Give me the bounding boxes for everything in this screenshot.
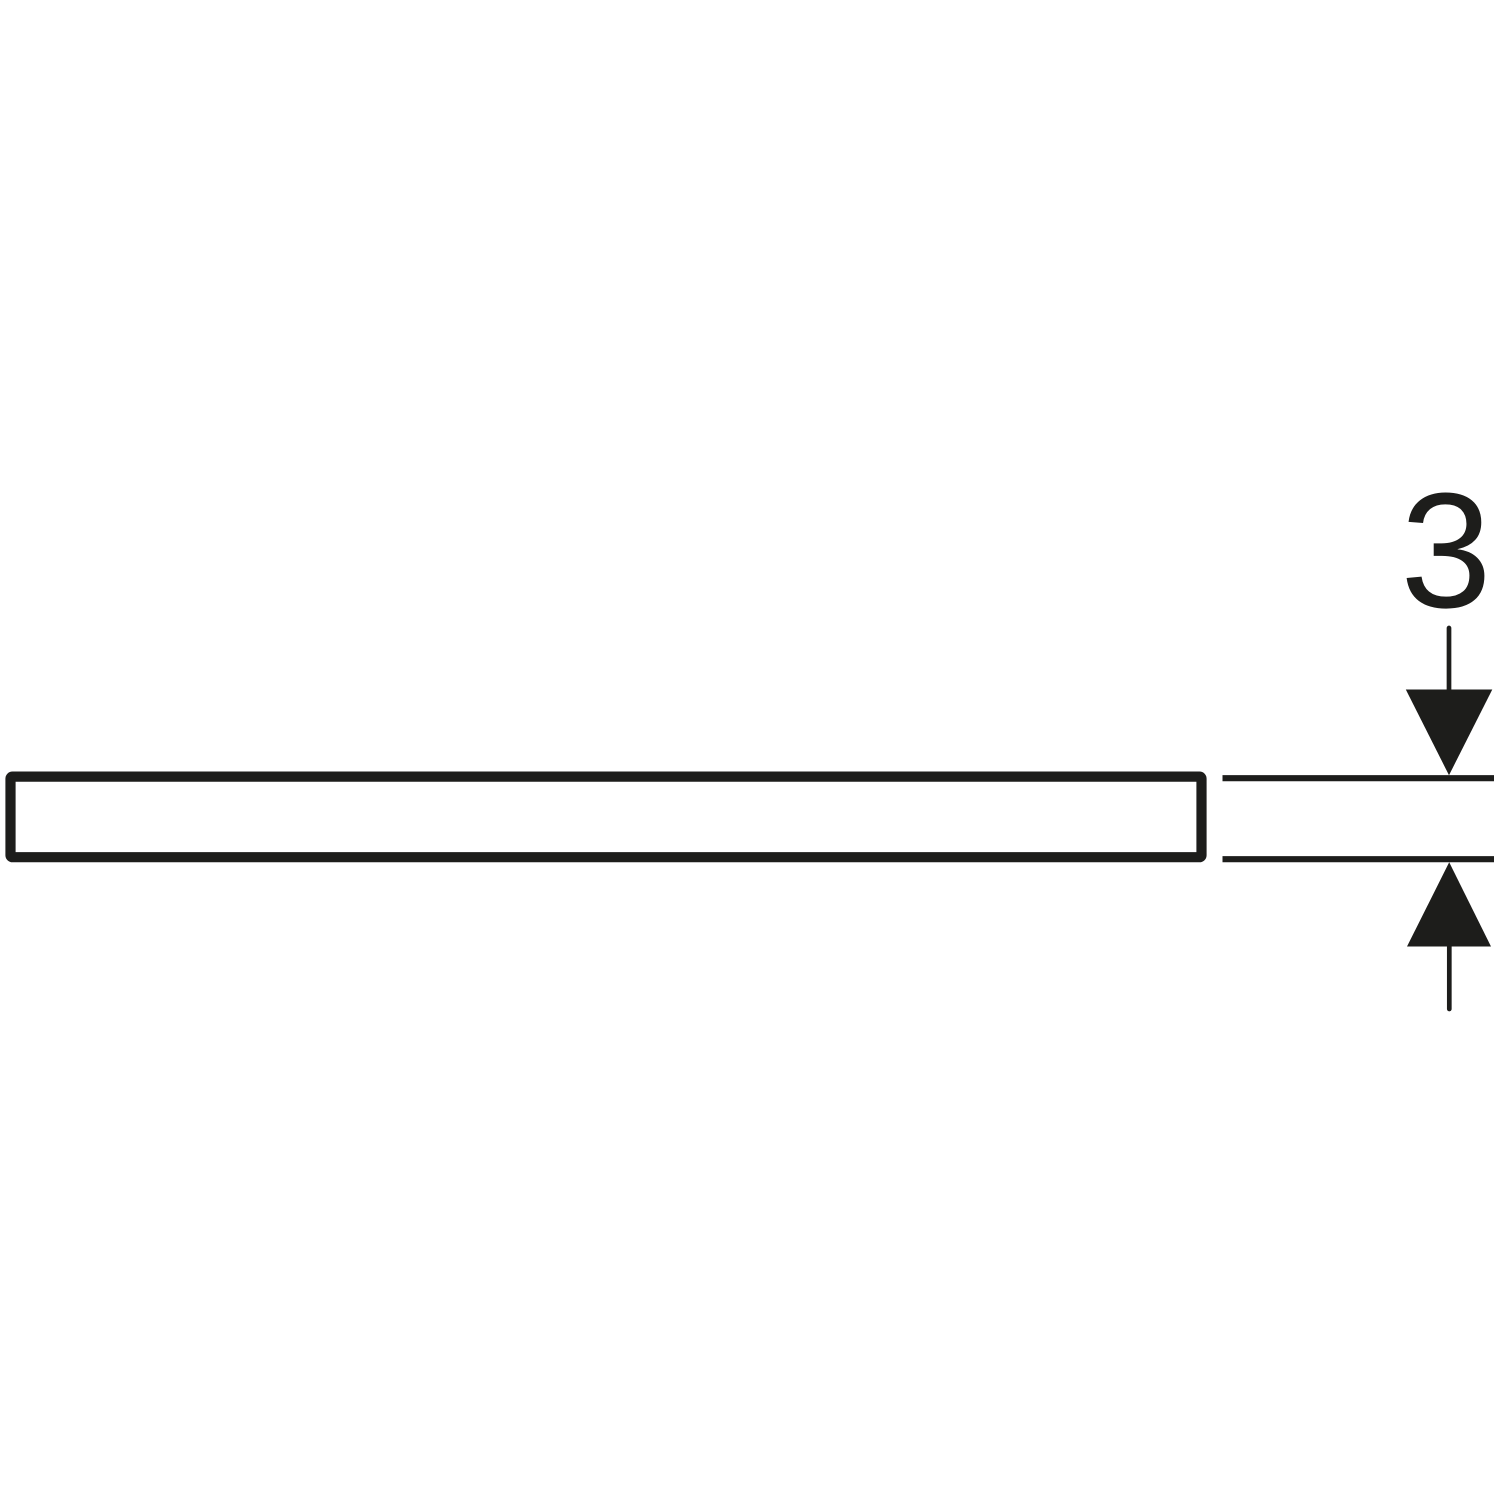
extension line bottom [1223, 856, 1495, 862]
extension line top [1223, 775, 1495, 781]
arrowhead up [1407, 862, 1491, 946]
plate (side view) [11, 777, 1202, 858]
arrowhead down [1406, 690, 1493, 776]
dimension leader stem bottom [1447, 946, 1452, 1009]
dimension leader stem top [1447, 628, 1452, 700]
svg-text:3: 3 [1400, 459, 1491, 642]
